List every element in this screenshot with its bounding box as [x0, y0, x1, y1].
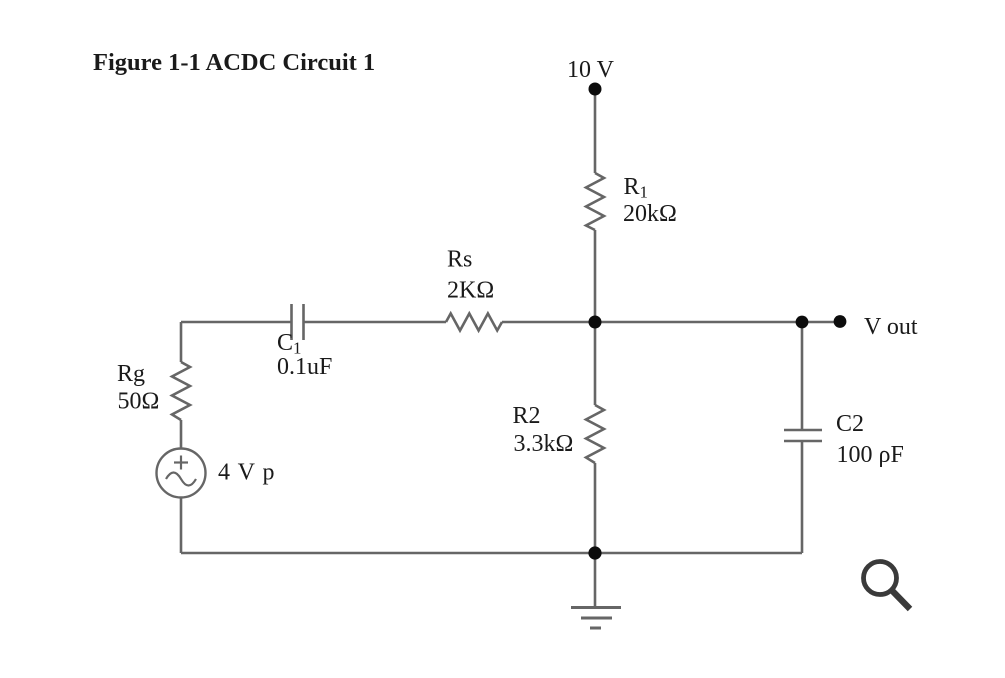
svg-text:R2: R2: [513, 403, 541, 429]
svg-text:V out: V out: [864, 314, 918, 340]
svg-text:0.1uF: 0.1uF: [277, 354, 332, 380]
svg-text:Rg: Rg: [117, 361, 145, 387]
svg-text:20kΩ: 20kΩ: [623, 201, 677, 227]
svg-text:Rs: Rs: [447, 247, 472, 273]
svg-text:3.3kΩ: 3.3kΩ: [514, 431, 574, 457]
svg-text:R1: R1: [624, 174, 649, 202]
svg-text:10 V: 10 V: [567, 57, 615, 83]
svg-text:2KΩ: 2KΩ: [447, 278, 494, 304]
svg-text:C2: C2: [836, 411, 864, 437]
svg-text:50Ω: 50Ω: [118, 389, 160, 415]
svg-text:Figure 1-1 ACDC Circuit 1: Figure 1-1 ACDC Circuit 1: [93, 49, 375, 76]
svg-text:100 ρF: 100 ρF: [837, 442, 904, 468]
svg-text:4 V p: 4 V p: [218, 460, 275, 486]
